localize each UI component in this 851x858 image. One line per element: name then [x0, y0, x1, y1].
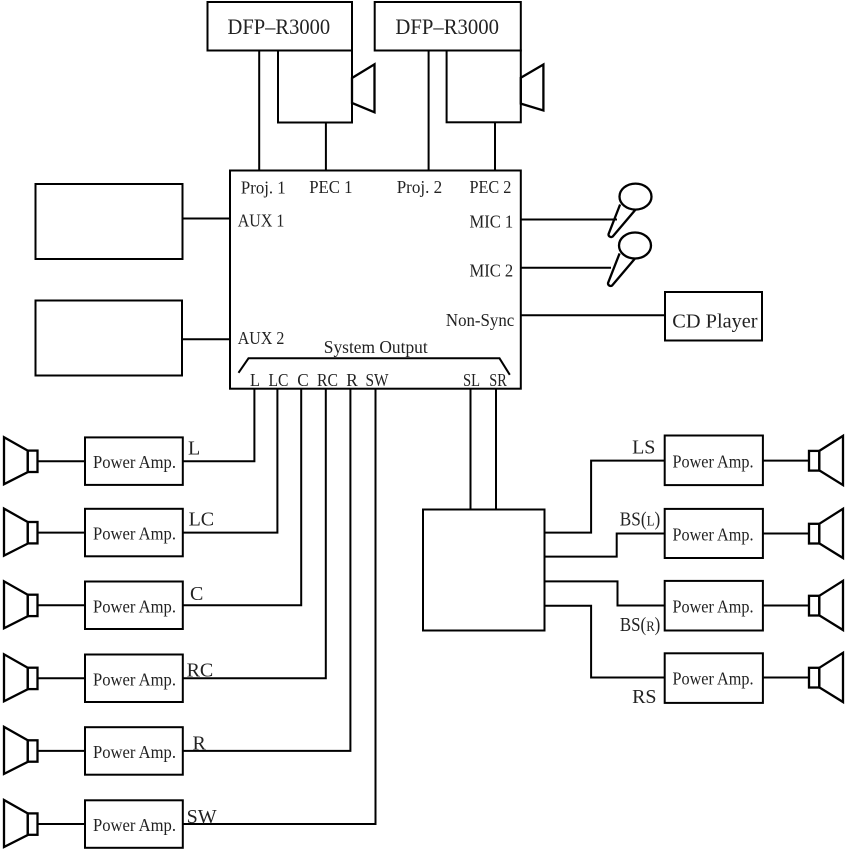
wire output C — [183, 389, 301, 606]
wire RS — [545, 606, 665, 678]
wire BS(R) — [545, 581, 665, 605]
svg-text:Power Amp.: Power Amp. — [673, 597, 754, 617]
wire output R — [183, 389, 350, 751]
wire speaker LC — [38, 532, 86, 534]
wire output SR — [495, 389, 497, 510]
svg-text:LC: LC — [269, 370, 289, 390]
svg-text:C: C — [297, 370, 309, 390]
wire speaker R — [38, 750, 86, 752]
svg-text:SR: SR — [489, 370, 507, 390]
surround decoder box — [423, 510, 545, 631]
wire MIC 2 — [521, 267, 611, 269]
svg-text:System Output: System Output — [324, 337, 428, 357]
speaker SW — [4, 800, 38, 847]
microphone 1 — [609, 184, 652, 237]
svg-text:RC: RC — [317, 370, 338, 390]
svg-text:RC: RC — [187, 660, 214, 682]
speaker C — [4, 581, 38, 628]
wire speaker BS(R) — [763, 605, 809, 607]
svg-text:CD Player: CD Player — [672, 311, 758, 333]
wire projector1 to PEC 1 — [325, 123, 327, 171]
svg-text:C: C — [190, 583, 203, 605]
svg-text:Power Amp.: Power Amp. — [93, 596, 176, 616]
svg-text:SW: SW — [187, 806, 217, 828]
svg-text:BS(R): BS(R) — [620, 614, 660, 636]
svg-text:Power Amp.: Power Amp. — [93, 815, 176, 835]
power amp box SW — [85, 800, 183, 848]
input source box A — [36, 184, 183, 259]
svg-text:Power Amp.: Power Amp. — [673, 669, 754, 689]
svg-text:Proj. 2: Proj. 2 — [397, 177, 443, 197]
svg-text:L: L — [250, 370, 260, 390]
svg-text:Power Amp.: Power Amp. — [93, 742, 176, 762]
svg-text:LS: LS — [632, 437, 655, 459]
wire speaker L — [38, 460, 86, 462]
power amp box LS — [665, 436, 763, 486]
svg-text:Power Amp.: Power Amp. — [673, 452, 754, 472]
svg-text:R: R — [193, 733, 207, 755]
speaker RS right — [809, 653, 843, 702]
wire speaker C — [38, 604, 86, 606]
svg-text:Proj. 1: Proj. 1 — [241, 177, 286, 197]
svg-text:RS: RS — [632, 686, 656, 708]
wire projector2 to PEC 2 — [494, 122, 496, 170]
speaker R — [4, 727, 38, 774]
projector horn speaker 2 — [521, 65, 544, 111]
speaker RC — [4, 654, 38, 701]
wire AUX 2 — [182, 338, 230, 340]
wire AUX 1 — [183, 218, 231, 220]
svg-text:R: R — [346, 370, 358, 390]
projector box 2 — [447, 51, 521, 123]
svg-text:Power Amp.: Power Amp. — [93, 452, 176, 472]
svg-text:Power Amp.: Power Amp. — [93, 669, 176, 689]
wire output RC — [183, 389, 326, 679]
input source box B — [36, 301, 183, 376]
power amp box L — [85, 437, 183, 485]
svg-text:AUX 1: AUX 1 — [238, 211, 284, 231]
speaker BS(R) right — [809, 581, 843, 630]
box DFP-R3000 #1 — [208, 2, 353, 51]
svg-text:LC: LC — [189, 508, 215, 530]
svg-text:SW: SW — [366, 370, 389, 390]
speaker LC — [4, 509, 38, 556]
system output bracket line — [239, 358, 510, 375]
wire output SL — [470, 389, 472, 510]
svg-text:MIC 1: MIC 1 — [470, 211, 514, 231]
power amp box C — [85, 582, 183, 630]
projector horn speaker 1 — [352, 64, 375, 112]
wire speaker BS(L) — [763, 533, 809, 535]
projector box 1 — [278, 51, 352, 123]
svg-text:PEC 1: PEC 1 — [309, 177, 352, 197]
wire output SW — [183, 389, 376, 824]
svg-text:DFP–R3000: DFP–R3000 — [228, 14, 331, 39]
speaker L — [4, 437, 38, 484]
power amp box LC — [85, 509, 183, 557]
svg-text:MIC 2: MIC 2 — [470, 261, 514, 281]
wire MIC 1 — [521, 219, 617, 221]
svg-text:L: L — [188, 437, 200, 459]
speaker BS(L) right — [809, 509, 843, 558]
wire speaker RC — [38, 677, 86, 679]
power amp box BS(R) — [665, 581, 763, 631]
wire DFP1 to Proj.1 — [258, 51, 260, 171]
power amp box BS(L) — [665, 509, 763, 558]
box CD Player — [665, 292, 762, 341]
svg-text:Power Amp.: Power Amp. — [93, 524, 176, 544]
wire LS — [545, 461, 665, 533]
power amp box RS — [665, 653, 763, 703]
power amp box R — [85, 727, 183, 775]
speakers left column — [4, 436, 843, 847]
power amp box RC — [85, 655, 183, 703]
svg-text:SL: SL — [463, 370, 480, 390]
microphone 2 — [608, 233, 651, 286]
wire output LC — [183, 389, 277, 533]
wire BS(L) — [545, 534, 665, 557]
wire DFP2 to Proj.2 — [428, 51, 430, 171]
wire speaker RS — [763, 677, 809, 679]
wire speaker LS — [763, 460, 809, 462]
central processor box — [230, 171, 521, 389]
wire Non-Sync to CD Player — [521, 314, 665, 316]
svg-text:PEC 2: PEC 2 — [470, 177, 512, 197]
wire speaker SW — [38, 823, 86, 825]
wire output L — [183, 389, 254, 462]
box DFP-R3000 #2 — [375, 2, 521, 51]
svg-text:DFP–R3000: DFP–R3000 — [395, 14, 499, 39]
speaker LS right — [809, 436, 843, 485]
svg-text:Power Amp.: Power Amp. — [673, 525, 754, 545]
svg-text:AUX 2: AUX 2 — [238, 328, 284, 348]
svg-text:Non-Sync: Non-Sync — [446, 310, 514, 330]
svg-text:BS(L): BS(L) — [620, 508, 660, 530]
